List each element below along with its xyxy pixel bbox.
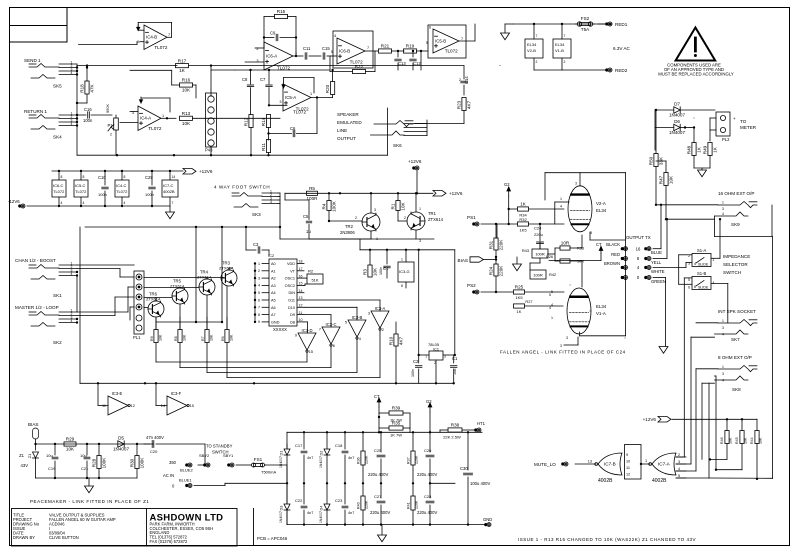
- svg-text:YELL: YELL: [651, 260, 662, 265]
- svg-text:4002B: 4002B: [163, 189, 175, 194]
- svg-text:TR1: TR1: [428, 211, 437, 216]
- svg-text:1N4007: 1N4007: [669, 113, 686, 118]
- svg-text:4n7: 4n7: [348, 511, 354, 515]
- svg-text:R44: R44: [750, 437, 754, 444]
- svg-text:220u: 220u: [534, 232, 543, 237]
- svg-text:SPEAKER: SPEAKER: [337, 112, 359, 117]
- svg-text:2: 2: [258, 269, 260, 273]
- svg-text:BLACK: BLACK: [606, 242, 620, 247]
- svg-text:4: 4: [560, 205, 562, 209]
- svg-text:3: 3: [566, 336, 568, 340]
- svg-text:5: 5: [258, 291, 260, 295]
- svg-text:R2: R2: [308, 269, 314, 274]
- svg-text:5: 5: [137, 40, 139, 44]
- svg-text:IC6-C: IC6-C: [53, 183, 64, 188]
- svg-text:1u: 1u: [306, 229, 311, 234]
- svg-text:350: 350: [169, 460, 177, 465]
- svg-text:R20: R20: [325, 84, 330, 93]
- svg-text:IC3-C: IC3-C: [326, 322, 337, 327]
- svg-text:D11: D11: [288, 299, 295, 303]
- svg-text:A5: A5: [271, 299, 276, 303]
- svg-text:4K7: 4K7: [399, 336, 404, 345]
- svg-text:12: 12: [131, 404, 135, 408]
- svg-text:8: 8: [124, 175, 126, 179]
- svg-text:SLIDE: SLIDE: [698, 263, 709, 267]
- svg-text:1N4007: 1N4007: [669, 130, 686, 135]
- svg-text:R27: R27: [525, 299, 532, 304]
- svg-text:4: 4: [71, 71, 73, 75]
- svg-text:5: 5: [549, 293, 551, 297]
- svg-text:C18: C18: [335, 443, 343, 448]
- svg-text:A4: A4: [271, 291, 276, 295]
- svg-text:18: 18: [299, 260, 303, 264]
- svg-text:2: 2: [678, 453, 680, 457]
- svg-text:IC3-D: IC3-D: [302, 328, 313, 333]
- svg-text:R9: R9: [150, 336, 154, 341]
- svg-text:220K: 220K: [415, 500, 419, 509]
- svg-text:EL34: EL34: [596, 208, 607, 213]
- svg-text:5: 5: [678, 474, 680, 478]
- svg-text:ACD046: ACD046: [49, 521, 65, 526]
- svg-text:TL072: TL072: [445, 49, 458, 54]
- svg-text:RED2: RED2: [615, 68, 628, 73]
- svg-text:1K: 1K: [697, 146, 702, 153]
- svg-text:Z1: Z1: [19, 453, 25, 458]
- svg-text:D1: D1: [279, 451, 284, 456]
- svg-text:R28: R28: [91, 458, 96, 467]
- svg-text:4: 4: [61, 201, 63, 205]
- svg-text:R18: R18: [79, 84, 84, 93]
- svg-text:R35: R35: [392, 421, 401, 426]
- svg-text:V2-B: V2-B: [527, 48, 536, 53]
- svg-text:C9: C9: [270, 31, 276, 36]
- svg-text:4002B: 4002B: [652, 478, 667, 484]
- svg-text:4: 4: [713, 281, 715, 285]
- svg-text:0: 0: [637, 275, 640, 280]
- svg-text:5: 5: [426, 41, 428, 45]
- svg-text:11: 11: [626, 466, 630, 470]
- svg-text:100n: 100n: [411, 369, 415, 377]
- svg-text:1K: 1K: [520, 202, 527, 207]
- svg-text:7: 7: [564, 34, 566, 38]
- svg-text:T5A: T5A: [581, 27, 590, 32]
- svg-text:C19: C19: [48, 466, 56, 471]
- svg-text:9: 9: [295, 334, 297, 338]
- svg-text:R41: R41: [407, 502, 411, 509]
- svg-text:OUTPUT: OUTPUT: [337, 136, 356, 141]
- svg-text:BIAS: BIAS: [28, 422, 38, 427]
- svg-text:R16: R16: [182, 78, 191, 83]
- svg-text:D6: D6: [674, 119, 680, 124]
- svg-text:4: 4: [549, 306, 551, 310]
- svg-text:7: 7: [258, 306, 260, 310]
- svg-text:2: 2: [110, 133, 112, 137]
- svg-text:IC1: IC1: [433, 347, 439, 351]
- svg-text:8: 8: [83, 175, 85, 179]
- svg-text:47K: 47K: [90, 83, 95, 92]
- svg-text:PS2: PS2: [467, 283, 476, 288]
- svg-text:8: 8: [401, 284, 403, 288]
- svg-text:C30: C30: [460, 466, 468, 471]
- svg-text:R50: R50: [648, 156, 653, 165]
- svg-text:10K: 10K: [66, 447, 75, 452]
- svg-text:6: 6: [429, 26, 431, 30]
- svg-text:A0: A0: [271, 262, 276, 266]
- svg-text:7: 7: [367, 46, 369, 50]
- svg-text:1: 1: [401, 258, 403, 262]
- svg-text:R3: R3: [362, 269, 367, 275]
- svg-text:7: 7: [168, 33, 170, 37]
- svg-text:SLIDE: SLIDE: [698, 286, 709, 290]
- svg-text:2: 2: [404, 216, 406, 220]
- svg-text:D10: D10: [288, 306, 295, 310]
- svg-text:C12: C12: [413, 61, 421, 66]
- svg-text:D8: D8: [290, 320, 295, 324]
- svg-text:HT1: HT1: [477, 421, 486, 426]
- svg-text:IC4-B: IC4-B: [146, 35, 157, 40]
- svg-text:7: 7: [319, 328, 321, 332]
- svg-text:22K 2.5W: 22K 2.5W: [443, 435, 461, 440]
- svg-text:D9: D9: [290, 313, 295, 317]
- svg-text:5: 5: [345, 321, 347, 325]
- svg-text:PCB = APC046: PCB = APC046: [257, 536, 288, 541]
- svg-text:4: 4: [71, 272, 73, 276]
- svg-text:C15: C15: [322, 46, 330, 51]
- svg-text:16: 16: [299, 274, 303, 278]
- svg-text:CLIVE BUTTON: CLIVE BUTTON: [49, 535, 79, 540]
- svg-text:IC6-B: IC6-B: [339, 48, 350, 53]
- svg-text:WHITE: WHITE: [651, 269, 665, 274]
- svg-text:1: 1: [258, 262, 260, 266]
- svg-text:5: 5: [688, 278, 690, 282]
- svg-text:10K: 10K: [182, 88, 191, 93]
- svg-text:+12V6: +12V6: [408, 159, 422, 164]
- svg-text:3: 3: [258, 276, 260, 280]
- svg-text:V1-B: V1-B: [555, 48, 564, 53]
- svg-text:1K: 1K: [179, 68, 186, 73]
- svg-text:4: 4: [722, 212, 724, 216]
- svg-text:AC IN: AC IN: [163, 473, 174, 478]
- svg-text:R49: R49: [702, 145, 707, 154]
- svg-text:1N4007: 1N4007: [279, 456, 283, 468]
- svg-text:100u 400V: 100u 400V: [470, 481, 490, 486]
- svg-text:C24: C24: [534, 226, 542, 231]
- svg-text:43V: 43V: [21, 463, 29, 468]
- svg-text:R39: R39: [392, 406, 401, 411]
- svg-text:C20: C20: [150, 449, 158, 454]
- svg-text:G2: G2: [426, 399, 432, 404]
- svg-text:VDD: VDD: [287, 262, 295, 266]
- svg-text:3: 3: [374, 208, 376, 212]
- svg-text:1: 1: [560, 197, 562, 201]
- svg-text:2: 2: [459, 78, 461, 82]
- svg-text:IC3-E: IC3-E: [112, 391, 123, 396]
- svg-text:15: 15: [190, 404, 194, 408]
- svg-text:4: 4: [359, 337, 361, 341]
- svg-text:R15: R15: [277, 9, 286, 14]
- svg-text:3: 3: [560, 344, 562, 348]
- svg-text:4: 4: [637, 265, 640, 270]
- svg-text:TL072: TL072: [148, 126, 161, 131]
- svg-text:SK7: SK7: [731, 337, 740, 342]
- svg-text:7: 7: [461, 37, 463, 41]
- svg-text:D7: D7: [674, 102, 680, 107]
- svg-text:6: 6: [688, 286, 690, 290]
- svg-text:IC5-B: IC5-B: [435, 38, 446, 43]
- svg-text:SK5: SK5: [53, 84, 62, 89]
- svg-text:IC4-C: IC4-C: [116, 183, 127, 188]
- svg-text:100R: 100R: [535, 252, 544, 257]
- svg-text:RED1: RED1: [615, 22, 628, 27]
- svg-text:S1-B: S1-B: [697, 271, 707, 276]
- svg-text:6: 6: [258, 298, 260, 302]
- svg-text:100n: 100n: [83, 118, 93, 123]
- svg-text:4: 4: [270, 200, 272, 204]
- svg-text:R36: R36: [357, 457, 361, 464]
- svg-text:1: 1: [419, 207, 421, 211]
- svg-text:BLUE: BLUE: [651, 250, 662, 255]
- svg-text:SK6: SK6: [393, 143, 402, 148]
- svg-text:MUTE_LO: MUTE_LO: [534, 462, 556, 467]
- svg-text:IC5-C: IC5-C: [75, 183, 86, 188]
- svg-text:BIAS: BIAS: [458, 258, 468, 263]
- svg-text:IC3-G: IC3-G: [399, 269, 410, 274]
- svg-text:TO: TO: [740, 119, 747, 124]
- svg-text:47n 400V: 47n 400V: [146, 435, 164, 440]
- svg-text:SWITCH: SWITCH: [723, 270, 741, 275]
- svg-text:220K: 220K: [415, 455, 419, 464]
- svg-text:10K: 10K: [401, 201, 406, 210]
- svg-text:A7: A7: [271, 313, 276, 317]
- svg-text:EL34: EL34: [555, 42, 565, 47]
- svg-text:10R: 10R: [561, 241, 570, 246]
- svg-text:C28: C28: [424, 494, 432, 499]
- svg-text:1: 1: [722, 319, 724, 323]
- svg-text:RED: RED: [611, 252, 620, 257]
- svg-text:+12V6: +12V6: [643, 417, 657, 422]
- svg-text:10K: 10K: [759, 437, 763, 444]
- svg-text:TL072: TL072: [53, 189, 65, 194]
- svg-text:EMULATED: EMULATED: [337, 120, 362, 125]
- svg-text:A6: A6: [271, 306, 276, 310]
- svg-text:R31: R31: [488, 240, 493, 249]
- svg-text:3: 3: [722, 207, 724, 211]
- svg-text:C26: C26: [424, 448, 432, 453]
- svg-text:R25: R25: [515, 285, 524, 290]
- svg-text:220u 400V: 220u 400V: [370, 510, 390, 515]
- svg-text:R45: R45: [735, 437, 739, 444]
- svg-text:IC3-A: IC3-A: [375, 306, 386, 311]
- svg-text:PL2: PL2: [722, 137, 730, 142]
- svg-text:2: 2: [536, 60, 538, 64]
- svg-text:ISSUE 1 - R13 R16 CHANGED TO 1: ISSUE 1 - R13 R16 CHANGED TO 10K (WAS22K…: [518, 537, 696, 542]
- svg-text:V2-A: V2-A: [596, 201, 606, 206]
- svg-text:GREEN: GREEN: [651, 279, 666, 284]
- svg-text:10K: 10K: [182, 121, 191, 126]
- svg-text:V1-A: V1-A: [596, 311, 606, 316]
- svg-text:GND: GND: [483, 517, 492, 522]
- svg-text:100K: 100K: [102, 457, 107, 469]
- svg-text:10K: 10K: [669, 175, 674, 184]
- svg-text:R11: R11: [261, 143, 266, 152]
- svg-text:R47: R47: [658, 175, 663, 184]
- svg-text:10: 10: [626, 460, 630, 464]
- svg-text:7: 7: [172, 201, 174, 205]
- svg-text:SK1: SK1: [53, 293, 62, 298]
- svg-text:4: 4: [722, 333, 724, 337]
- svg-text:IC6-A: IC6-A: [266, 53, 277, 58]
- svg-text:GND: GND: [271, 320, 280, 324]
- svg-text:4: 4: [124, 201, 126, 205]
- svg-text:R1: R1: [390, 203, 395, 209]
- svg-text:R30: R30: [129, 458, 134, 467]
- svg-text:100n: 100n: [98, 192, 107, 197]
- svg-text:220u 400V: 220u 400V: [368, 472, 388, 477]
- svg-text:METER: METER: [740, 125, 757, 130]
- svg-text:1K5: 1K5: [519, 228, 527, 233]
- svg-text:4n7: 4n7: [307, 456, 313, 460]
- svg-text:S1-A: S1-A: [697, 248, 707, 253]
- svg-text:100K: 100K: [140, 457, 145, 469]
- svg-text:IC4-A: IC4-A: [140, 116, 151, 121]
- svg-text:R46: R46: [720, 437, 724, 444]
- svg-text:17: 17: [299, 267, 303, 271]
- svg-text:SK4: SK4: [53, 135, 62, 140]
- svg-text:+: +: [733, 116, 736, 121]
- svg-text:C21: C21: [81, 466, 89, 471]
- svg-text:10: 10: [299, 318, 303, 322]
- svg-text:MASTER 1/2 - LOOP: MASTER 1/2 - LOOP: [15, 305, 59, 310]
- svg-text:3: 3: [575, 182, 577, 186]
- svg-text:8 OHM EXT O/P: 8 OHM EXT O/P: [718, 355, 752, 360]
- svg-text:0: 0: [172, 484, 175, 489]
- svg-text:C22: C22: [295, 498, 303, 503]
- svg-text:4: 4: [722, 379, 724, 383]
- svg-text:SELECTOR: SELECTOR: [723, 262, 748, 267]
- svg-text:1: 1: [645, 459, 647, 463]
- svg-text:C4: C4: [383, 266, 389, 271]
- svg-text:IC7-C: IC7-C: [163, 183, 174, 188]
- svg-text:C8: C8: [242, 77, 248, 82]
- svg-text:OUTPUT TX: OUTPUT TX: [626, 235, 651, 240]
- svg-text:3: 3: [368, 312, 370, 316]
- svg-text:C1: C1: [452, 356, 458, 361]
- svg-text:IC3-B: IC3-B: [352, 315, 363, 320]
- svg-text:R7: R7: [201, 336, 205, 341]
- svg-text:950K: 950K: [105, 104, 110, 113]
- svg-text:A3: A3: [271, 284, 276, 288]
- svg-text:TL072: TL072: [154, 45, 167, 50]
- svg-text:R48: R48: [686, 145, 691, 154]
- svg-text:6.3V AC: 6.3V AC: [613, 46, 631, 51]
- svg-text:C2: C2: [413, 359, 419, 364]
- svg-text:SK3: SK3: [252, 212, 261, 217]
- svg-text:FS1: FS1: [254, 457, 263, 462]
- svg-text:8: 8: [637, 256, 640, 261]
- svg-text:3: 3: [722, 326, 724, 330]
- svg-text:TL072: TL072: [75, 189, 87, 194]
- svg-text:16: 16: [636, 246, 641, 251]
- svg-text:4: 4: [71, 122, 73, 126]
- svg-text:LINE: LINE: [337, 128, 347, 133]
- svg-text:220K: 220K: [499, 265, 504, 277]
- svg-text:PS1: PS1: [467, 215, 476, 220]
- svg-text:2N3906: 2N3906: [340, 230, 355, 235]
- svg-text:C16: C16: [84, 107, 92, 112]
- svg-text:78L05: 78L05: [428, 342, 440, 347]
- svg-text:R42: R42: [549, 272, 556, 277]
- svg-text:IC7-B: IC7-B: [604, 462, 616, 467]
- svg-text:14: 14: [299, 289, 303, 293]
- svg-text:9: 9: [258, 320, 260, 324]
- svg-text:100K: 100K: [332, 200, 337, 212]
- svg-text:100n: 100n: [379, 267, 383, 275]
- svg-text:IC5-A: IC5-A: [285, 95, 296, 100]
- svg-text:R23: R23: [456, 100, 461, 109]
- svg-text:C23: C23: [335, 498, 343, 503]
- svg-text:7: 7: [536, 34, 538, 38]
- svg-text:6: 6: [333, 344, 335, 348]
- svg-text:ZTX614: ZTX614: [197, 275, 212, 280]
- svg-text:4: 4: [71, 319, 73, 323]
- svg-text:IMPEDANCE: IMPEDANCE: [723, 254, 750, 259]
- svg-text:100R: 100R: [533, 273, 542, 278]
- svg-text:R4: R4: [321, 203, 326, 209]
- svg-text:VT: VT: [290, 269, 296, 273]
- svg-text:1: 1: [162, 114, 164, 118]
- svg-text:R38: R38: [451, 423, 460, 428]
- svg-text:2: 2: [355, 216, 357, 220]
- svg-text:1: 1: [722, 201, 724, 205]
- svg-text:10K: 10K: [230, 334, 234, 341]
- svg-text:8: 8: [61, 175, 63, 179]
- svg-text:SEND 1: SEND 1: [24, 58, 41, 63]
- svg-text:10K: 10K: [373, 267, 378, 276]
- svg-text:R22: R22: [355, 64, 364, 69]
- svg-text:4: 4: [334, 34, 336, 38]
- svg-text:10K: 10K: [183, 334, 187, 341]
- svg-text:C7: C7: [260, 77, 266, 82]
- svg-text:R5: R5: [309, 186, 315, 191]
- svg-text:16 OHM EXT O/P: 16 OHM EXT O/P: [718, 191, 754, 196]
- svg-text:10K: 10K: [744, 437, 748, 444]
- svg-text:R13: R13: [182, 111, 191, 116]
- svg-text:1N4007: 1N4007: [319, 511, 323, 523]
- svg-text:1: 1: [295, 51, 297, 55]
- svg-text:4K7: 4K7: [467, 100, 472, 109]
- svg-text:D5: D5: [118, 436, 124, 441]
- svg-text:BROWN: BROWN: [604, 261, 620, 266]
- svg-text:OSC1: OSC1: [285, 277, 295, 281]
- svg-text:11: 11: [299, 311, 303, 315]
- svg-text:IC3-F: IC3-F: [171, 391, 182, 396]
- svg-text:EL34: EL34: [527, 42, 537, 47]
- svg-text:9: 9: [626, 453, 628, 457]
- svg-text:SK8: SK8: [732, 387, 741, 392]
- svg-text:1: 1: [551, 316, 553, 320]
- svg-text:IC7-A: IC7-A: [658, 462, 671, 467]
- svg-text:51K: 51K: [311, 278, 318, 283]
- svg-text:EL34: EL34: [596, 304, 607, 309]
- svg-text:D4: D4: [319, 505, 324, 511]
- svg-text:XXXXX: XXXXX: [273, 327, 287, 332]
- svg-text:100n: 100n: [145, 192, 154, 197]
- svg-text:3: 3: [722, 372, 724, 376]
- svg-text:PL1: PL1: [133, 335, 141, 340]
- svg-text:4: 4: [83, 201, 85, 205]
- svg-text:6: 6: [694, 285, 696, 289]
- svg-text:D2: D2: [319, 451, 324, 456]
